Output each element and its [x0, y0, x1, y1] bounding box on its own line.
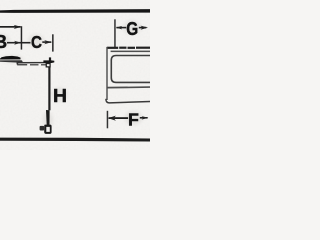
clamp top nub [49, 57, 51, 60]
scan smudge halos [0, 21, 143, 129]
arm channel upper line [17, 62, 47, 64]
top border rule [0, 9, 150, 13]
svg-text:B: B [0, 32, 7, 52]
arm channel lower broken line [17, 64, 46, 65]
F left arrow (points left) [108, 116, 128, 121]
right extension line of C [52, 34, 54, 51]
svg-text:C: C [31, 32, 42, 52]
box bottom edge with corner curve [105, 99, 150, 104]
G extension line [114, 19, 116, 48]
svg-text:F: F [128, 109, 139, 129]
svg-text:G: G [126, 19, 138, 39]
blade lower thick section [46, 110, 50, 125]
dimension arrow C (points right) [42, 40, 51, 44]
box outer left edge [106, 47, 107, 100]
scan grain [0, 0, 150, 150]
shelf line under inner rect [107, 86, 150, 88]
G left arrow (points left) [116, 26, 126, 30]
wiper arm: upper wedge (black filled) [0, 56, 21, 60]
foot left nub [40, 126, 45, 131]
svg-text:H: H [53, 85, 67, 106]
F extension line [107, 111, 109, 129]
G right arrow (points right) [139, 26, 148, 30]
box top edge (thick, slightly broken) [107, 47, 150, 49]
dimension line B with right arrow [7, 41, 31, 45]
clamp bar [43, 60, 54, 63]
box top second thin edge line [111, 51, 150, 53]
wiper arm: lower edge line with step [0, 60, 23, 62]
clamp box (open square) [46, 63, 51, 68]
inner rounded rectangle (screen) [111, 56, 152, 83]
foot ring (open) [44, 125, 51, 134]
bottom border rule [0, 138, 150, 142]
blade upper thin section [48, 68, 50, 111]
upper dimension arrow (label cut off at left) [0, 25, 21, 29]
F right arrow (points right) [140, 116, 149, 120]
arm channel left step connector [17, 61, 19, 65]
left extension line [21, 26, 23, 49]
